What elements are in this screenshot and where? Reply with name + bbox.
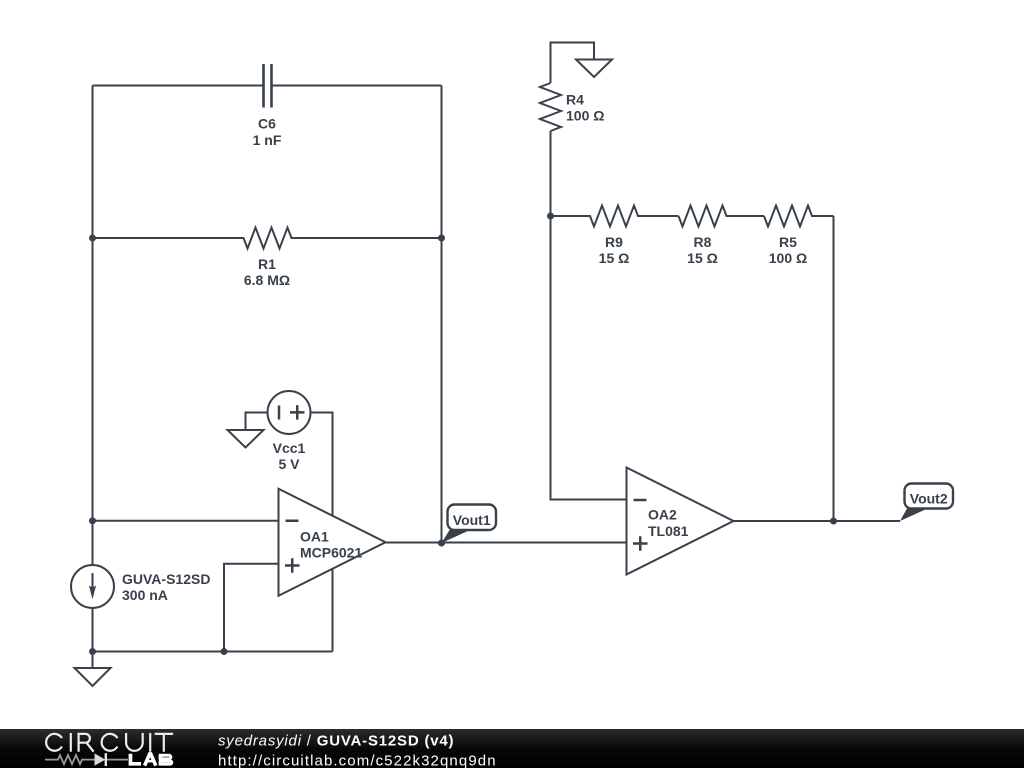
logo resistor-diode line xyxy=(45,755,128,764)
svg-text:R8: R8 xyxy=(694,234,712,250)
current source arrow shaft xyxy=(92,573,94,591)
svg-text:100 Ω: 100 Ω xyxy=(566,108,604,124)
junction node R1 left xyxy=(89,235,96,242)
ground top right xyxy=(576,60,612,78)
svg-text:1 nF: 1 nF xyxy=(253,132,282,148)
op-amp OA2 triangle xyxy=(627,468,734,575)
logo diode xyxy=(95,753,106,765)
wire OA2 inverting input vertical from R4/R9 node xyxy=(551,131,627,500)
svg-text:GUVA-S12SD: GUVA-S12SD xyxy=(122,571,210,587)
junction node inverting input row xyxy=(89,517,96,524)
svg-text:R9: R9 xyxy=(605,234,623,250)
svg-text:Vcc1: Vcc1 xyxy=(273,440,306,456)
wire Vcc1 right terminal down through OA1 to bottom rail xyxy=(311,413,333,652)
junction node OA2 output xyxy=(830,518,837,525)
svg-text:syedrasyidi / GUVA-S12SD (v4): syedrasyidi / GUVA-S12SD (v4) xyxy=(218,733,454,750)
op-amp OA1 minus marker xyxy=(286,520,299,523)
resistor R5 100Ω xyxy=(764,206,834,227)
svg-text:MCP6021: MCP6021 xyxy=(300,545,362,561)
wire right vertical of feedback loop xyxy=(441,86,443,544)
junction node R9 row xyxy=(547,213,554,220)
footer bar xyxy=(0,729,1024,768)
op-amp OA2 plus marker xyxy=(633,536,648,551)
voltage source Vcc1 circle xyxy=(268,391,311,434)
wire current source bottom to ground xyxy=(92,608,94,668)
svg-text:OA1: OA1 xyxy=(300,529,329,545)
resistor R8 15Ω xyxy=(679,206,765,227)
wire left vertical rail xyxy=(92,86,94,566)
svg-text:Vout2: Vout2 xyxy=(910,491,948,507)
Vcc1 plus marker xyxy=(290,405,305,420)
junction node bottom rail left xyxy=(89,648,96,655)
op-amp OA1 triangle xyxy=(279,489,386,596)
svg-text:R5: R5 xyxy=(779,234,797,250)
svg-text:5 V: 5 V xyxy=(278,456,300,472)
current source arrow head xyxy=(89,585,96,599)
svg-text:300 nA: 300 nA xyxy=(122,587,168,603)
op-amp OA1 plus marker xyxy=(285,558,300,573)
junction node R1 right xyxy=(438,235,445,242)
Vcc1 minus bar (rotated) xyxy=(278,406,281,420)
svg-text:Vout1: Vout1 xyxy=(453,512,491,528)
resistor R4 100Ω vertical xyxy=(540,83,561,131)
logo CIRCUIT wordmark (thin letterforms) xyxy=(46,733,173,752)
wire OA1 inverting input xyxy=(93,520,279,522)
ground at Vcc1 xyxy=(228,430,264,448)
svg-text:6.8 MΩ: 6.8 MΩ xyxy=(244,272,290,288)
resistor R1 6.8 MΩ xyxy=(93,228,442,249)
svg-text:100 Ω: 100 Ω xyxy=(769,250,807,266)
op-amp OA2 minus marker xyxy=(634,499,647,502)
wire OA1 noninverting input to bottom rail xyxy=(224,564,279,652)
wire right vertical from R5 to OA2 output xyxy=(833,216,835,521)
flag Vout2 xyxy=(900,484,953,522)
svg-text:OA2: OA2 xyxy=(648,507,677,523)
ground bottom left xyxy=(75,668,111,686)
junction node bottom rail mid xyxy=(221,648,228,655)
current source GUVA-S12SD circle xyxy=(71,565,114,608)
svg-text:R1: R1 xyxy=(258,256,276,272)
flag Vout1 xyxy=(442,505,497,544)
wire top loop left segment to C6 xyxy=(93,85,264,87)
svg-text:http://circuitlab.com/c522k32q: http://circuitlab.com/c522k32qnq9dn xyxy=(218,753,497,768)
svg-text:C6: C6 xyxy=(258,116,276,132)
logo LAB (drawn letters) xyxy=(129,754,154,766)
wire bottom rail xyxy=(93,651,333,653)
svg-text:R4: R4 xyxy=(566,92,584,108)
svg-text:15 Ω: 15 Ω xyxy=(687,250,718,266)
wire R4 top hook to ground xyxy=(551,43,595,84)
svg-text:15 Ω: 15 Ω xyxy=(599,250,630,266)
capacitor C6 plates xyxy=(264,64,272,108)
wire OA1 output to OA2 noninverting input xyxy=(386,542,627,544)
junction node Vout1 xyxy=(438,540,445,547)
resistor R9 15Ω xyxy=(551,206,679,227)
wire top loop right segment from C6 xyxy=(272,85,442,87)
wire OA2 output xyxy=(734,520,901,522)
wire Vcc1 left to its ground xyxy=(246,413,268,431)
svg-text:TL081: TL081 xyxy=(648,523,689,539)
